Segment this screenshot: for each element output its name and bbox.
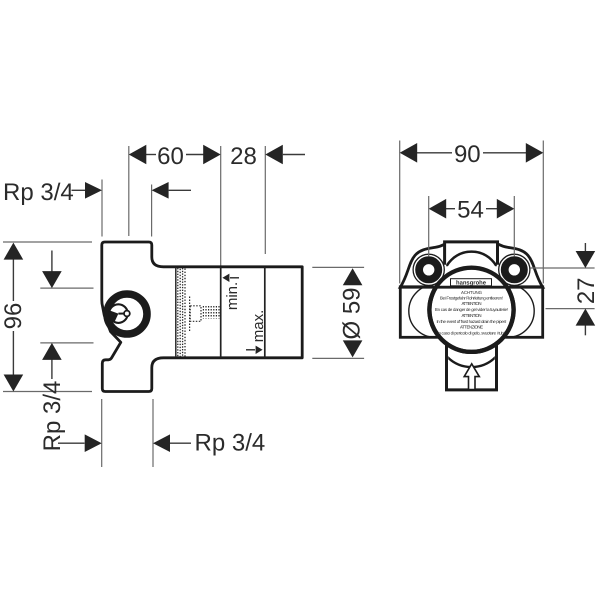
lever stem	[118, 313, 127, 315]
side port dim arrow down	[51, 251, 53, 272]
top dome arc	[443, 252, 500, 309]
extension line dia59 top	[312, 266, 364, 268]
svg-text:ATTENTION: ATTENTION	[462, 313, 482, 318]
extension line 60-left (port axis)	[128, 146, 130, 236]
label circle (protection cap)	[429, 268, 513, 352]
flow arrow (up) in bottom tab	[464, 364, 479, 390]
dim 27 arrows (outside)	[584, 243, 586, 253]
extension line dia59 bottom	[312, 357, 364, 359]
svg-text:27: 27	[573, 277, 600, 304]
extension line 54 right	[513, 196, 515, 256]
svg-text:28: 28	[230, 143, 257, 170]
svg-text:Bei Frostgefahr Rohrleitung en: Bei Frostgefahr Rohrleitung entleeren!	[440, 295, 503, 300]
extension line side port top	[40, 287, 93, 289]
extension line bottom port left	[101, 399, 103, 467]
extension line 90 left	[399, 141, 401, 284]
band	[400, 287, 542, 338]
svg-text:60: 60	[157, 143, 184, 170]
svg-text:Ø 59: Ø 59	[339, 287, 366, 339]
side port dim arrow up	[51, 360, 53, 380]
svg-text:In the event of frost hazard d: In the event of frost hazard drain the p…	[437, 319, 507, 324]
extension line top port right (x=151.6)	[151, 185, 153, 237]
re-draw band top edge ends (over shoulder fill joins)	[400, 285, 433, 288]
hansgrohe label box	[451, 279, 492, 286]
min line	[220, 267, 222, 358]
svg-text:Rp 3/4: Rp 3/4	[195, 430, 266, 457]
side port ring	[107, 294, 147, 334]
arrow 96 down	[4, 375, 24, 392]
svg-text:96: 96	[0, 303, 27, 330]
cartridge hidden detail (dotted)	[189, 297, 191, 333]
warning text	[435, 290, 508, 336]
arrow 60 right	[203, 145, 221, 165]
svg-text:54: 54	[457, 197, 484, 224]
dimension 96 line	[12, 259, 14, 301]
svg-text:max.: max.	[250, 310, 267, 343]
extension line 28-right (max)	[264, 146, 266, 254]
svg-text:En cas de danger de gel vider: En cas de danger de gel vider la tuyaute…	[435, 307, 508, 312]
svg-text:min.: min.	[224, 282, 241, 310]
min arrow	[230, 277, 239, 279]
arrow 60 left	[129, 145, 147, 165]
svg-text:Rp 3/4: Rp 3/4	[3, 179, 74, 206]
extension line 27 bottom	[546, 308, 595, 310]
extension line side port bottom	[40, 342, 93, 344]
label circle rim redraw (over lobes)	[429, 268, 513, 352]
svg-text:hansgrohe: hansgrohe	[456, 279, 487, 286]
dimension 60 line segments	[146, 154, 156, 156]
arrow 28 right (outside, pointing left)	[265, 145, 283, 165]
extension line 90 right	[542, 141, 544, 284]
arrow 96 up	[4, 243, 24, 260]
svg-text:ACHTUNG: ACHTUNG	[461, 290, 483, 295]
thread start line	[175, 268, 177, 357]
thin circle around right hole	[499, 254, 530, 285]
leader line Rp3/4 top	[72, 189, 86, 191]
arrow at top port left edge (pointing right)	[85, 182, 102, 199]
extension line 96 bottom	[3, 391, 92, 393]
svg-text:90: 90	[454, 141, 481, 168]
max arrow	[246, 349, 255, 351]
left hole donut	[419, 260, 438, 279]
bottom port arrows	[58, 442, 85, 444]
lobe circle right	[481, 285, 534, 338]
bottom dome arc	[438, 299, 506, 367]
extension line bottom port right	[152, 399, 154, 467]
extension line 27 top	[531, 267, 595, 269]
svg-text:In caso di pericolo di gelo, s: In caso di pericolo di gelo, svuotare i …	[438, 331, 506, 336]
dim 90	[417, 152, 453, 154]
thin circle around left hole	[413, 254, 444, 285]
right hole donut	[505, 260, 524, 279]
thread dotted band	[177, 268, 179, 357]
lever knob	[124, 311, 130, 317]
lobe circle left	[409, 285, 462, 338]
shoulders	[400, 244, 542, 287]
svg-text:ATTENTION: ATTENTION	[462, 301, 482, 306]
extension line top port left (x=102)	[101, 180, 103, 237]
svg-text:ATTENZIONE: ATTENZIONE	[460, 325, 483, 330]
dim 54	[446, 208, 455, 210]
body outline	[102, 242, 302, 392]
top tab	[445, 242, 498, 265]
arrow at top port right edge (pointing left)	[152, 182, 169, 199]
dim 59 arrows	[343, 268, 363, 285]
extension line min (x=220.7) above sleeve	[220, 146, 222, 267]
max line	[264, 267, 266, 358]
bottom tab	[447, 337, 497, 390]
lever symbol circle	[109, 304, 128, 323]
extension line 54 left	[428, 196, 430, 256]
svg-text:Rp 3/4: Rp 3/4	[39, 381, 66, 452]
lever wedge	[109, 310, 119, 322]
extension line 96 top	[3, 241, 92, 243]
